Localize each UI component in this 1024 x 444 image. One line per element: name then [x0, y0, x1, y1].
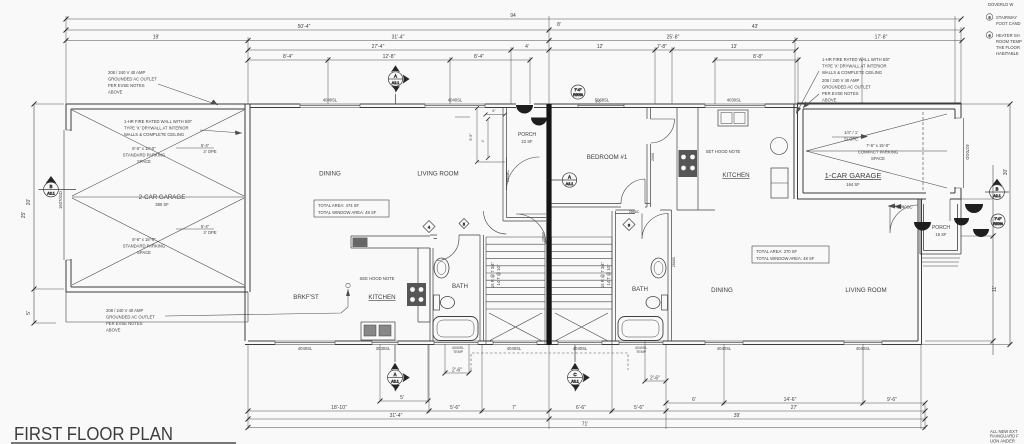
svg-text:1/4" / 1': 1/4" / 1' [844, 130, 858, 135]
svg-text:2068C: 2068C [542, 231, 546, 242]
svg-text:8'-4": 8'-4" [283, 54, 293, 60]
svg-text:PER EVSE NOTES: PER EVSE NOTES [822, 91, 859, 96]
svg-text:4040SL: 4040SL [856, 346, 871, 351]
svg-text:4070GD: 4070GD [965, 144, 970, 160]
svg-text:A: A [394, 372, 397, 377]
svg-text:94: 94 [510, 13, 516, 19]
svg-text:2868C: 2868C [629, 210, 640, 214]
svg-text:BEDROOM #1: BEDROOM #1 [587, 154, 628, 161]
svg-text:15 R @ 7 3/4": 15 R @ 7 3/4" [600, 261, 605, 288]
svg-text:5': 5' [400, 395, 404, 401]
svg-text:14'-6": 14'-6" [784, 397, 797, 403]
svg-text:4040SL: 4040SL [323, 98, 338, 103]
svg-text:4040SL: 4040SL [507, 346, 522, 351]
svg-text:3' OPE: 3' OPE [203, 149, 216, 154]
svg-text:3030SL: 3030SL [376, 346, 391, 351]
svg-text:2868C: 2868C [505, 170, 510, 182]
svg-text:B: B [996, 187, 999, 192]
svg-text:8'-6" x 18'-0": 8'-6" x 18'-0" [132, 146, 156, 151]
svg-text:GROUNDED AC OUTLET: GROUNDED AC OUTLET [108, 77, 157, 82]
svg-text:DINING: DINING [711, 287, 733, 294]
svg-text:18'-10": 18'-10" [331, 405, 347, 411]
svg-text:6'-6": 6'-6" [576, 405, 586, 411]
svg-text:12': 12' [597, 44, 604, 50]
svg-text:GROUNDED AC OUTLET: GROUNDED AC OUTLET [106, 315, 155, 320]
svg-text:2040SC: 2040SC [897, 205, 912, 210]
svg-text:A2.1: A2.1 [566, 182, 573, 186]
svg-text:7': 7' [512, 405, 516, 411]
svg-text:22 SF: 22 SF [521, 139, 533, 144]
svg-text:27'-4": 27'-4" [372, 44, 385, 50]
svg-text:ABOVE: ABOVE [106, 328, 121, 333]
svg-text:380 SF: 380 SF [155, 202, 169, 207]
svg-text:14 T @ 10": 14 T @ 10" [496, 264, 501, 285]
svg-text:43': 43' [752, 24, 759, 30]
svg-text:8': 8' [557, 22, 561, 28]
svg-text:FOOT CAND: FOOT CAND [996, 21, 1021, 26]
svg-text:50'-4": 50'-4" [298, 24, 311, 30]
svg-text:17'-8": 17'-8" [875, 35, 888, 41]
svg-text:LIVING ROOM: LIVING ROOM [845, 287, 886, 294]
svg-text:TYPE 'X' DRYWALL AT INTERIOR: TYPE 'X' DRYWALL AT INTERIOR [124, 126, 189, 131]
svg-text:B: B [50, 184, 53, 189]
svg-text:R50%: R50% [573, 93, 584, 97]
svg-text:GROUNDED AC OUTLET: GROUNDED AC OUTLET [822, 85, 871, 90]
svg-text:FIRST FLOOR PLAN: FIRST FLOOR PLAN [14, 423, 173, 444]
svg-text:5': 5' [26, 311, 32, 315]
svg-text:12'-8": 12'-8" [383, 54, 396, 60]
svg-text:5'-4": 5'-4" [201, 143, 210, 148]
svg-text:KITCHEN: KITCHEN [722, 172, 749, 179]
svg-text:2-CAR GARAGE: 2-CAR GARAGE [139, 194, 186, 201]
svg-text:2868C: 2868C [672, 256, 676, 267]
svg-text:SPACE: SPACE [871, 156, 885, 161]
svg-text:4040SL: 4040SL [717, 346, 732, 351]
svg-text:WALLS & COMPLETE CEILING: WALLS & COMPLETE CEILING [124, 132, 184, 137]
svg-text:BRKF'ST: BRKF'ST [293, 294, 319, 301]
svg-text:BATH: BATH [452, 283, 468, 290]
svg-text:PORCH: PORCH [932, 225, 950, 231]
svg-text:7'-0": 7'-0" [574, 88, 582, 92]
svg-text:ABOVE: ABOVE [822, 98, 837, 103]
svg-text:4030SL: 4030SL [727, 98, 742, 103]
svg-text:19': 19' [153, 35, 160, 41]
svg-text:UON ANDER: UON ANDER [990, 438, 1015, 443]
svg-text:8'-6" x 18'-0": 8'-6" x 18'-0" [132, 237, 156, 242]
svg-text:TEMP: TEMP [636, 350, 647, 354]
svg-text:31'-4": 31'-4" [392, 35, 405, 41]
svg-text:6': 6' [692, 397, 696, 403]
svg-text:8'-4": 8'-4" [474, 54, 484, 60]
svg-text:3-6: 3-6 [596, 100, 601, 104]
svg-text:20': 20' [26, 199, 32, 206]
svg-text:A: A [394, 74, 397, 79]
svg-text:TOTAL AREA: 474 SF: TOTAL AREA: 474 SF [318, 203, 360, 208]
svg-text:5'-9": 5'-9" [469, 133, 473, 141]
svg-text:KITCHEN: KITCHEN [368, 294, 395, 301]
svg-text:TYPE 'X' DRYWALL AT INTERIOR: TYPE 'X' DRYWALL AT INTERIOR [822, 64, 887, 69]
svg-text:25': 25' [21, 212, 27, 219]
svg-text:HABITABLE: HABITABLE [996, 51, 1019, 56]
svg-text:15 R @ 7 3/4": 15 R @ 7 3/4" [490, 261, 495, 288]
svg-text:SPACE: SPACE [137, 159, 151, 164]
svg-text:39': 39' [734, 413, 741, 419]
svg-text:COMPACT PARKING: COMPACT PARKING [858, 150, 898, 155]
svg-text:A2.1: A2.1 [47, 192, 54, 196]
svg-text:27': 27' [791, 405, 798, 411]
svg-text:WALLS & COMPLETE CEILING: WALLS & COMPLETE CEILING [822, 70, 882, 75]
svg-text:A2.1: A2.1 [391, 380, 398, 384]
svg-text:A2.1: A2.1 [392, 81, 399, 85]
svg-text:STANDARD PARKING: STANDARD PARKING [123, 244, 165, 249]
svg-text:DINING: DINING [319, 171, 341, 178]
svg-text:A2.1: A2.1 [571, 380, 578, 384]
svg-text:R50%: R50% [993, 222, 1004, 226]
svg-text:TOTAL WINDOW AREA: 48 SF: TOTAL WINDOW AREA: 48 SF [756, 256, 815, 261]
svg-text:14 T @ 10": 14 T @ 10" [606, 264, 611, 285]
svg-text:7'-6" x 15'-0": 7'-6" x 15'-0" [866, 143, 890, 148]
svg-text:ABOVE: ABOVE [108, 90, 123, 95]
svg-text:5'-6": 5'-6" [450, 405, 460, 411]
svg-text:TEMP: TEMP [453, 350, 464, 354]
svg-text:ROOM TEMP: ROOM TEMP [996, 39, 1022, 44]
svg-text:208 / 240 V 40 AMP: 208 / 240 V 40 AMP [108, 70, 145, 75]
svg-text:SET HOOD NOTE: SET HOOD NOTE [706, 149, 741, 154]
svg-text:4040SL: 4040SL [298, 346, 313, 351]
svg-text:2'-6": 2'-6" [650, 376, 660, 382]
svg-text:5'-4": 5'-4" [201, 224, 210, 229]
svg-text:31'-4": 31'-4" [390, 413, 403, 419]
svg-text:4': 4' [525, 44, 529, 50]
svg-text:11': 11' [992, 286, 998, 292]
svg-text:164 SF: 164 SF [846, 182, 860, 187]
svg-text:PORCH: PORCH [518, 132, 536, 138]
svg-text:TOTAL AREA: 370 SF: TOTAL AREA: 370 SF [756, 249, 798, 254]
svg-text:2668: 2668 [651, 153, 655, 161]
svg-text:5'-6": 5'-6" [634, 405, 644, 411]
svg-text:7'-0": 7'-0" [994, 217, 1002, 221]
svg-text:SEE HOOD NOTE: SEE HOOD NOTE [360, 276, 395, 281]
svg-text:4': 4' [481, 139, 485, 142]
svg-text:208 / 240 V 40 AMP: 208 / 240 V 40 AMP [822, 78, 859, 83]
svg-text:208 / 240 V 40 AMP: 208 / 240 V 40 AMP [106, 308, 143, 313]
svg-text:15 SF: 15 SF [935, 232, 947, 237]
svg-text:5: 5 [463, 223, 465, 227]
svg-text:8'-8": 8'-8" [753, 54, 763, 60]
svg-text:7'-8": 7'-8" [657, 44, 667, 50]
svg-text:3' OPE: 3' OPE [203, 230, 216, 235]
svg-text:HEATER SH: HEATER SH [996, 33, 1020, 38]
svg-text:PER EVSE NOTES: PER EVSE NOTES [108, 83, 145, 88]
svg-text:9'-6": 9'-6" [887, 397, 897, 403]
svg-text:THE FLOOR: THE FLOOR [996, 45, 1020, 50]
svg-text:2'-6": 2'-6" [452, 368, 462, 374]
svg-text:5: 5 [988, 16, 990, 20]
svg-text:TOTAL WINDOW AREA: 48 SF: TOTAL WINDOW AREA: 48 SF [318, 210, 377, 215]
svg-text:STANDARD PARKING: STANDARD PARKING [123, 153, 165, 158]
svg-text:DOVERLD W: DOVERLD W [988, 2, 1013, 7]
svg-text:BATH: BATH [632, 286, 648, 293]
svg-text:30': 30' [1003, 169, 1009, 176]
svg-text:PER EVSE NOTES: PER EVSE NOTES [106, 321, 143, 326]
svg-text:25'-8": 25'-8" [667, 35, 680, 41]
svg-text:SPACE: SPACE [137, 250, 151, 255]
svg-text:16070GD: 16070GD [58, 191, 63, 209]
svg-text:1-CAR GARAGE: 1-CAR GARAGE [825, 171, 882, 180]
svg-text:13': 13' [731, 44, 738, 50]
svg-text:A2.1: A2.1 [993, 194, 1000, 198]
svg-text:A: A [568, 175, 571, 180]
svg-text:4040SL: 4040SL [448, 98, 463, 103]
svg-text:6: 6 [988, 34, 990, 38]
svg-text:LIVING ROOM: LIVING ROOM [417, 171, 458, 178]
svg-text:STAIRWAY: STAIRWAY [996, 15, 1017, 20]
svg-text:1-HR FIRE RATED WALL WITH 5/8": 1-HR FIRE RATED WALL WITH 5/8" [822, 57, 891, 62]
svg-text:71': 71' [582, 422, 589, 428]
svg-text:1-HR FIRE RATED WALL WITH 5/8": 1-HR FIRE RATED WALL WITH 5/8" [124, 119, 193, 124]
svg-text:C: C [573, 372, 576, 377]
